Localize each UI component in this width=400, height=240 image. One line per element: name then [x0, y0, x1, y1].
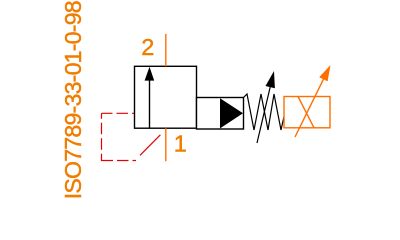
- svg-text:ISO7789-33-01-0-98: ISO7789-33-01-0-98: [60, 0, 86, 199]
- svg-text:1: 1: [174, 131, 187, 157]
- svg-text:2: 2: [141, 34, 154, 60]
